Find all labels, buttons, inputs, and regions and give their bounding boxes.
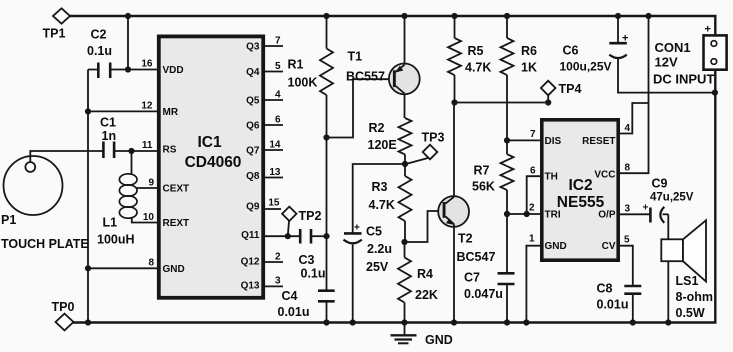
svg-text:Q7: Q7 (246, 146, 260, 157)
pin 2 stub Q12 (265, 252, 283, 263)
capacitor C6 (560, 16, 715, 93)
test point TP3 (406, 131, 445, 165)
svg-text:C7: C7 (464, 271, 480, 285)
svg-text:Q12: Q12 (241, 257, 260, 268)
node junction rail VCC (645, 13, 651, 19)
node junction R2/R3/TP3 (402, 161, 408, 167)
transistor T2 BC547 (438, 103, 495, 323)
svg-text:10: 10 (143, 212, 155, 223)
svg-text:TH: TH (545, 172, 558, 183)
pin 13 stub Q8 (265, 167, 283, 178)
wire TH to TRI (527, 176, 540, 214)
svg-text:R6: R6 (521, 44, 537, 58)
wire rail to VDD node (127, 16, 129, 70)
svg-text:LS1: LS1 (676, 274, 699, 288)
svg-text:R3: R3 (372, 180, 388, 194)
svg-text:0.1u: 0.1u (301, 267, 326, 281)
node junction bottom rail T2 emitter (451, 319, 457, 325)
svg-text:R5: R5 (468, 44, 484, 58)
svg-text:6: 6 (530, 166, 536, 177)
svg-text:11: 11 (142, 140, 153, 151)
svg-text:6: 6 (275, 115, 281, 126)
svg-text:1n: 1n (102, 129, 117, 143)
wire bottom ground rail (73, 70, 715, 323)
node junction rail C6 (615, 13, 621, 19)
svg-text:+: + (354, 223, 360, 234)
svg-text:T1: T1 (348, 50, 363, 64)
svg-text:RS: RS (163, 145, 177, 156)
svg-text:BC547: BC547 (457, 250, 496, 264)
svg-text:R7: R7 (474, 164, 490, 178)
svg-text:TP4: TP4 (559, 82, 582, 96)
node junction rail R6 (504, 13, 510, 19)
node junction DIS (504, 137, 510, 143)
svg-text:0.01u: 0.01u (597, 298, 629, 312)
svg-text:CD4060: CD4060 (185, 154, 242, 171)
wire T1 base path (327, 79, 393, 137)
svg-text:8-ohm: 8-ohm (676, 290, 714, 304)
svg-text:0.1u: 0.1u (87, 44, 112, 58)
svg-text:CON1: CON1 (655, 40, 691, 55)
svg-text:4.7K: 4.7K (369, 198, 395, 212)
svg-text:120E: 120E (368, 138, 397, 152)
resistor R6 (501, 16, 538, 154)
node junction R5/T2 collector/TP4 (451, 99, 457, 105)
test point TP4 (541, 81, 582, 103)
node junction CON1 negative (712, 90, 718, 96)
transistor T1 BC557 (346, 16, 420, 118)
svg-text:C8: C8 (597, 282, 613, 296)
node junction bottom rail x88 (85, 319, 91, 325)
resistor R4 (398, 242, 438, 323)
pin 6 stub Q6 (265, 115, 283, 126)
svg-text:Q6: Q6 (246, 121, 260, 132)
svg-text:5: 5 (624, 235, 630, 246)
capacitor C9 (643, 177, 694, 223)
svg-text:+: + (643, 203, 649, 214)
pin 8 wire VCC (620, 16, 649, 174)
resistor R3 (369, 164, 412, 242)
svg-text:4: 4 (275, 90, 281, 101)
capacitor C1 (100, 116, 157, 159)
svg-text:7: 7 (530, 129, 536, 140)
node junction TH/TRI (524, 211, 530, 217)
svg-text:4: 4 (625, 123, 631, 134)
svg-text:Q11: Q11 (241, 230, 260, 241)
svg-text:100K: 100K (288, 76, 318, 90)
svg-text:+: + (705, 24, 711, 36)
resistor R5 (448, 16, 491, 103)
svg-text:T2: T2 (458, 232, 473, 246)
svg-text:C9: C9 (652, 177, 668, 191)
IC U2 IC2 NE555 (542, 120, 618, 260)
wire IC2 GND pin to rail (526, 246, 540, 323)
svg-text:R4: R4 (417, 267, 433, 281)
svg-text:C4: C4 (282, 289, 298, 303)
node junction rail R1 (323, 13, 329, 19)
node junction C3 column (323, 233, 329, 239)
pin 4 wire RESET (620, 103, 649, 134)
inductor L1 (97, 151, 137, 247)
svg-text:9: 9 (148, 178, 154, 189)
svg-text:DC INPUT: DC INPUT (653, 72, 714, 87)
wire CEXT stub (137, 187, 158, 189)
svg-text:RESET: RESET (582, 136, 615, 147)
capacitor C5 (344, 223, 393, 323)
pin 7 stub Q3 (265, 36, 283, 47)
svg-text:VCC: VCC (594, 170, 615, 181)
svg-text:5: 5 (275, 61, 281, 72)
svg-text:0.5W: 0.5W (676, 306, 705, 320)
svg-text:+: + (622, 33, 628, 45)
wire speaker to rail (667, 261, 669, 322)
svg-text:0.047u: 0.047u (464, 287, 503, 301)
svg-text:3: 3 (625, 204, 631, 215)
svg-text:R2: R2 (369, 121, 385, 135)
svg-text:47u,25V: 47u,25V (650, 192, 694, 204)
svg-text:NE555: NE555 (557, 194, 605, 211)
svg-text:TRI: TRI (545, 210, 561, 221)
svg-text:4.7K: 4.7K (465, 61, 491, 75)
svg-text:REXT: REXT (163, 218, 190, 229)
svg-text:C3: C3 (299, 253, 315, 267)
node junction TP4 (545, 99, 551, 105)
svg-text:100uH: 100uH (97, 233, 135, 247)
node junction R7/C7/TRI (504, 211, 510, 217)
node junction rail R5 (451, 13, 457, 19)
test point TP2 (282, 207, 321, 237)
wire T2 base path (405, 211, 443, 242)
svg-text:1: 1 (529, 234, 535, 245)
svg-text:100u,25V: 100u,25V (560, 60, 612, 74)
wire TRI stub (507, 213, 540, 215)
wire L1 bottom to REXT (132, 218, 157, 223)
svg-text:7: 7 (275, 36, 281, 47)
test point TP1 (43, 8, 71, 40)
svg-text:Q5: Q5 (246, 96, 260, 107)
svg-text:8: 8 (148, 258, 154, 269)
pin 4 stub Q5 (265, 90, 283, 101)
node junction rail T1 emitter (401, 13, 407, 19)
wire top +12V rail (69, 16, 715, 35)
svg-text:Q4: Q4 (246, 67, 260, 78)
svg-text:1K: 1K (521, 61, 537, 75)
node junction RS row (128, 148, 134, 154)
svg-text:CEXT: CEXT (163, 184, 190, 195)
connector CON1 (653, 24, 727, 87)
svg-text:C6: C6 (563, 44, 579, 58)
node junction MR row (85, 108, 91, 114)
svg-text:14: 14 (269, 140, 281, 151)
pin 5 stub Q4 (265, 61, 283, 72)
node junction bottom rail R4 (401, 319, 407, 325)
svg-text:TP3: TP3 (422, 131, 445, 145)
svg-text:GND: GND (163, 264, 185, 275)
capacitor C2 (87, 28, 157, 79)
svg-text:O/P: O/P (598, 210, 616, 221)
svg-text:15: 15 (268, 198, 280, 209)
ground symbol (391, 324, 453, 348)
node junction R1 base tap (323, 134, 329, 140)
svg-text:VDD: VDD (163, 65, 184, 76)
svg-text:12: 12 (141, 101, 153, 112)
svg-text:56K: 56K (472, 180, 495, 194)
svg-text:IC2: IC2 (568, 177, 592, 194)
wire left vertical bus x88 (87, 70, 89, 323)
svg-text:R1: R1 (288, 58, 304, 72)
wire P1 to C1 (30, 151, 103, 162)
svg-text:Q13: Q13 (241, 281, 260, 292)
node junction bottom rail C7 (504, 319, 510, 325)
svg-text:TP2: TP2 (299, 209, 322, 223)
node junction bottom rail C5 (350, 319, 356, 325)
node junction bottom rail C8 (630, 319, 636, 325)
capacitor C7 (464, 214, 515, 323)
wire DIS stub (507, 139, 540, 141)
svg-text:TP1: TP1 (43, 27, 66, 41)
node junction R3/R4/T2 base (401, 239, 407, 245)
svg-text:TP0: TP0 (52, 300, 75, 314)
svg-text:L1: L1 (103, 216, 118, 230)
svg-text:0.01u: 0.01u (278, 305, 310, 319)
svg-text:GND: GND (545, 241, 567, 252)
svg-text:12V: 12V (655, 55, 678, 70)
node junction at rail x128 (125, 13, 131, 19)
pin 5 wire CV (620, 235, 633, 287)
svg-text:CV: CV (602, 241, 616, 252)
svg-text:GND: GND (425, 333, 453, 347)
resistor R2 (368, 118, 412, 164)
node junction VDD/C2 (125, 66, 131, 72)
wire C5 branch (353, 164, 405, 233)
resistor R7 (472, 154, 514, 214)
IC U1 IC1 CD4060 (159, 36, 263, 297)
node junction bottom rail speaker (665, 319, 671, 325)
capacitor C8 (597, 282, 642, 323)
wire C9 to speaker (667, 214, 669, 239)
svg-text:P1: P1 (1, 213, 16, 227)
pin 3 stub Q13 (265, 276, 283, 287)
svg-text:25V: 25V (366, 260, 389, 274)
node junction TP2/pin1 (285, 233, 291, 239)
node junction GND row (85, 265, 91, 271)
node junction bottom rail C4 (323, 319, 329, 325)
speaker LS1 (661, 220, 713, 320)
svg-text:Q9: Q9 (246, 202, 260, 213)
svg-text:16: 16 (141, 59, 153, 70)
pin 14 stub Q7 (265, 140, 283, 151)
svg-text:C1: C1 (100, 116, 116, 130)
node junction bottom rail GND pin (523, 319, 529, 325)
capacitor C4 (278, 289, 335, 323)
svg-text:13: 13 (269, 167, 281, 178)
svg-text:C5: C5 (366, 225, 382, 239)
pin 3 wire O/P (620, 204, 650, 215)
wire R1 column down to C3/C4 (326, 138, 328, 291)
svg-text:22K: 22K (415, 288, 438, 302)
svg-text:TOUCH PLATE: TOUCH PLATE (1, 237, 89, 251)
svg-text:2.2u: 2.2u (367, 242, 392, 256)
test point TP0 (52, 300, 75, 330)
svg-text:C2: C2 (91, 28, 107, 42)
svg-text:IC1: IC1 (197, 134, 222, 151)
svg-text:3: 3 (275, 276, 281, 287)
svg-text:2: 2 (275, 252, 281, 263)
svg-text:Q3: Q3 (246, 42, 260, 53)
svg-text:BC557: BC557 (346, 70, 385, 84)
svg-text:Q8: Q8 (246, 171, 260, 182)
resistor R1 (288, 16, 334, 138)
touch plate P1 (1, 156, 89, 251)
wire MR to IC1 (88, 110, 157, 112)
svg-text:MR: MR (163, 107, 179, 118)
svg-text:2: 2 (529, 203, 535, 214)
pin 15 stub Q9 (265, 198, 281, 210)
pin 1 wire Q11 to C3 (265, 235, 300, 237)
svg-text:DIS: DIS (545, 136, 562, 147)
wire TP4 line (455, 102, 549, 104)
wire GND row to IC1 (88, 267, 157, 269)
capacitor C3 (299, 229, 327, 281)
svg-text:8: 8 (625, 163, 631, 174)
